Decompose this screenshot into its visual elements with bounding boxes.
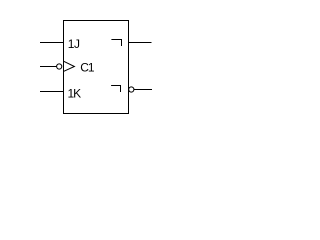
svg-text:1J: 1J xyxy=(68,37,80,51)
svg-text:1K: 1K xyxy=(68,86,82,100)
svg-text:C1: C1 xyxy=(80,61,95,75)
